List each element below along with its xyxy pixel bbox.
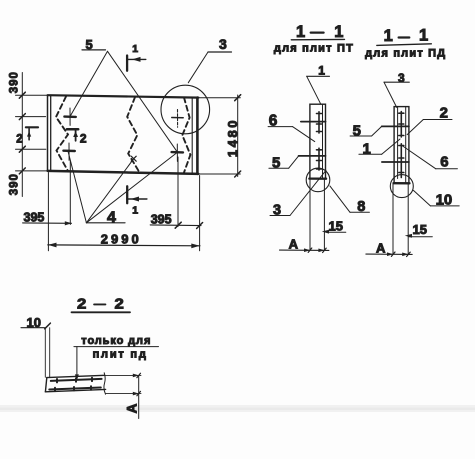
svg-text:1: 1 bbox=[384, 27, 393, 45]
callout 5 (PD) bbox=[350, 122, 382, 139]
svg-text:2: 2 bbox=[115, 295, 124, 312]
wire bottom edge bbox=[48, 171, 199, 174]
anchor cross top-right (thin, inside detail circle) bbox=[172, 110, 183, 128]
slab section 2-2 outline bbox=[45, 373, 105, 394]
svg-text:2: 2 bbox=[440, 105, 448, 122]
rebar bottom (PT) bbox=[299, 155, 326, 157]
rebar top (2-2) bbox=[51, 378, 102, 383]
dim 10 bbox=[21, 315, 50, 330]
svg-text:1: 1 bbox=[132, 43, 138, 55]
callout 6 (PD) bbox=[402, 145, 458, 170]
wire right edge outer bbox=[196, 98, 199, 174]
svg-text:плит пд: плит пд bbox=[93, 349, 148, 361]
callout 1 (PT top) bbox=[307, 63, 330, 104]
zigzag loop left bbox=[56, 97, 68, 172]
loop bar in section (PD) bbox=[399, 112, 404, 178]
callout 2 (PD) bbox=[407, 105, 452, 135]
section mark 1 bottom bbox=[127, 186, 147, 216]
svg-text:2: 2 bbox=[80, 131, 87, 145]
extension verticals bottom bbox=[48, 157, 199, 251]
left dimension line column bbox=[16, 73, 48, 197]
tails below PT bbox=[309, 179, 311, 251]
anchor cross bottom-right bbox=[172, 144, 183, 161]
callout 3 (PT) bbox=[270, 170, 326, 218]
section mark 2 inner bbox=[67, 129, 87, 145]
svg-text:395: 395 bbox=[24, 210, 45, 224]
detail circle (PT bottom) bbox=[306, 168, 330, 192]
svg-text:2990: 2990 bbox=[101, 232, 142, 247]
svg-text:А: А bbox=[376, 240, 386, 255]
dim A (2-2) bbox=[105, 373, 141, 418]
section mark 2 left bbox=[16, 127, 38, 145]
svg-text:1: 1 bbox=[419, 26, 428, 44]
zigzag loop right bbox=[182, 98, 190, 173]
section mark 1 top bbox=[127, 43, 146, 71]
svg-text:1: 1 bbox=[132, 204, 138, 216]
plan view: slab outline bbox=[48, 95, 199, 174]
node x-mark on middle zigzag bbox=[131, 156, 136, 161]
dim 15 (PD) bbox=[405, 222, 433, 238]
heading 1 - 1 (PT) bbox=[274, 23, 354, 55]
svg-text:4: 4 bbox=[107, 210, 116, 227]
callout 5 (PT) bbox=[269, 155, 299, 172]
wire left edge inner bbox=[50, 95, 52, 171]
svg-text:15: 15 bbox=[413, 222, 427, 237]
svg-text:6: 6 bbox=[440, 154, 448, 171]
svg-text:1: 1 bbox=[296, 23, 305, 41]
svg-text:1: 1 bbox=[318, 63, 325, 77]
dim A (PT) bbox=[280, 236, 329, 252]
break line bbox=[104, 373, 106, 394]
svg-text:3: 3 bbox=[219, 36, 227, 52]
extension verticals 10 bbox=[44, 328, 46, 378]
label 5 with leaders bbox=[70, 37, 177, 152]
svg-text:2: 2 bbox=[16, 133, 22, 145]
svg-text:А: А bbox=[289, 236, 299, 251]
svg-text:для плит ПД: для плит ПД bbox=[365, 47, 446, 59]
label 3 with leader bbox=[188, 36, 231, 82]
rebar top (PD) bbox=[382, 125, 409, 127]
svg-text:5: 5 bbox=[272, 155, 280, 172]
bottom dimension 395 left bbox=[23, 210, 72, 225]
svg-text:1: 1 bbox=[334, 23, 343, 41]
wire right edge inner bbox=[191, 98, 193, 174]
svg-text:1480: 1480 bbox=[225, 118, 240, 157]
detail circle callout 3 bbox=[161, 85, 210, 134]
svg-text:1: 1 bbox=[363, 141, 371, 158]
callout 3 (PD top) bbox=[384, 71, 409, 108]
rebar bottom (2-2) bbox=[49, 386, 101, 391]
dim 15 (PT) bbox=[322, 219, 346, 234]
note text only for PD slabs bbox=[74, 335, 159, 380]
svg-text:А: А bbox=[125, 403, 140, 413]
bottom dimension 2990 bbox=[48, 232, 200, 249]
wire left edge outer bbox=[47, 95, 49, 171]
svg-text:15: 15 bbox=[329, 219, 343, 234]
svg-text:только для: только для bbox=[81, 335, 151, 347]
right dimension 1480 bbox=[199, 95, 241, 177]
rebar top (PT) bbox=[301, 121, 326, 123]
oblique ticks bbox=[19, 92, 25, 174]
svg-text:для плит ПТ: для плит ПТ bbox=[274, 43, 354, 55]
svg-text:2: 2 bbox=[77, 295, 86, 312]
dim A (PD) bbox=[366, 240, 412, 256]
bottom dimension 395 right bbox=[150, 212, 202, 228]
callout 6 (PT) bbox=[268, 112, 315, 141]
label 4 with leaders bbox=[68, 151, 177, 226]
wire top edge bbox=[48, 95, 199, 97]
callout 1 (PD) bbox=[359, 139, 400, 158]
heading 2 - 2 bbox=[72, 295, 131, 312]
svg-text:395: 395 bbox=[151, 212, 172, 226]
anchor cross bottom-left bbox=[63, 143, 74, 160]
callout 8 (PT) bbox=[330, 186, 370, 215]
rebar bottom (PD) bbox=[382, 161, 409, 163]
tails below PD bbox=[392, 183, 394, 254]
detail circle (PD bottom) bbox=[390, 175, 413, 198]
svg-text:5: 5 bbox=[353, 122, 361, 139]
svg-text:390: 390 bbox=[9, 173, 21, 195]
PD section body bbox=[382, 107, 414, 255]
callout 10 (PD) bbox=[413, 190, 459, 208]
zigzag loop middle bbox=[127, 97, 139, 171]
scan streak artifact bbox=[0, 405, 475, 412]
anchor cross top-left bbox=[64, 108, 75, 125]
loop bar in section (PT) bbox=[317, 112, 322, 170]
PT section body bbox=[299, 104, 330, 250]
heading 1 - 1 (PD) bbox=[365, 26, 446, 59]
svg-text:390: 390 bbox=[9, 71, 21, 93]
